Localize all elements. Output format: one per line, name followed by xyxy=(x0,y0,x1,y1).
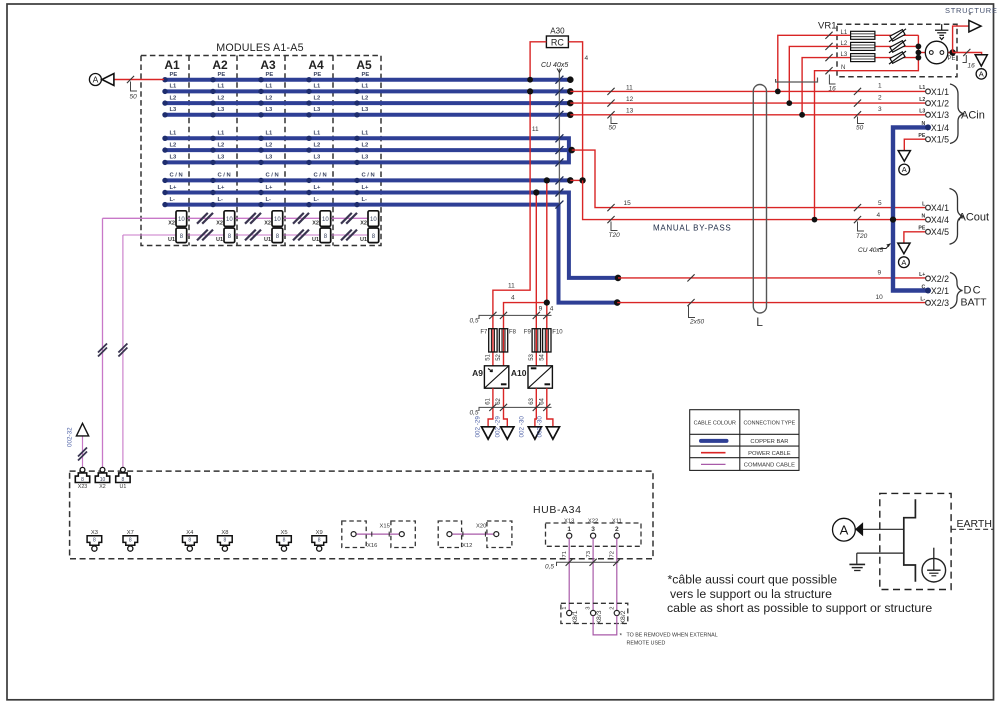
remote connector X8 group xyxy=(561,603,628,623)
svg-text:2: 2 xyxy=(878,95,882,102)
svg-text:X4/4: X4/4 xyxy=(931,215,949,225)
svg-text:A: A xyxy=(93,75,99,85)
svg-text:X20: X20 xyxy=(476,524,486,530)
svg-text:4: 4 xyxy=(550,306,554,313)
terminal X4/5 xyxy=(926,229,931,234)
VR1 monitoring socket xyxy=(925,41,948,64)
svg-text:F9: F9 xyxy=(524,330,532,336)
svg-text:11: 11 xyxy=(626,84,633,91)
wire size 0,5 marks (remote wires) xyxy=(557,559,621,566)
svg-text:002 -29: 002 -29 xyxy=(475,416,482,438)
VR1 fuse xyxy=(851,31,875,39)
power wire 9 from L+ bar down to F9/A10 xyxy=(535,193,537,366)
svg-text:CABLE COLOUR: CABLE COLOUR xyxy=(694,421,736,427)
svg-text:COMMAND CABLE: COMMAND CABLE xyxy=(744,463,795,469)
svg-text:8: 8 xyxy=(283,538,286,544)
terminal X1/1 xyxy=(926,89,931,94)
svg-text:3: 3 xyxy=(586,606,592,609)
copper bar L- with elbow to DC output xyxy=(165,205,618,303)
connector X7 xyxy=(123,530,138,551)
copper bar L3 (top group) xyxy=(165,113,571,117)
terminal X4/4 xyxy=(926,217,931,222)
svg-text:0,5: 0,5 xyxy=(470,409,479,416)
svg-text:N: N xyxy=(922,213,926,219)
svg-text:A9: A9 xyxy=(472,368,483,378)
svg-text:62: 62 xyxy=(496,397,502,404)
svg-text:52: 52 xyxy=(496,353,502,360)
module A5 connector X2 xyxy=(360,211,378,227)
svg-text:5: 5 xyxy=(878,200,882,207)
svg-text:15: 15 xyxy=(624,200,632,207)
X23 wire to off-page arrow 002-32 xyxy=(82,437,84,467)
svg-text:8: 8 xyxy=(129,538,132,544)
svg-text:X16: X16 xyxy=(367,543,377,549)
svg-text:10: 10 xyxy=(322,217,329,223)
power wire 13 to X1 xyxy=(570,114,928,116)
svg-text:F10: F10 xyxy=(552,330,563,336)
svg-text:A: A xyxy=(840,522,849,537)
converter A10 xyxy=(511,366,552,388)
2x50 size marks xyxy=(687,274,695,317)
command cable X2 line xyxy=(103,217,379,219)
module A3 connector U1 xyxy=(264,228,283,243)
X1/5 PE wire to earth arrow xyxy=(904,139,928,150)
power wire 11 from L1 bar down to F7/A9 xyxy=(493,91,530,365)
svg-text:ACin: ACin xyxy=(961,110,985,122)
svg-text:4: 4 xyxy=(511,295,515,302)
wire size 16 mark xyxy=(963,49,971,63)
A30 left wire to PE bar xyxy=(530,42,546,80)
svg-text:T20: T20 xyxy=(609,232,621,239)
svg-text:L2: L2 xyxy=(919,97,925,103)
command cable X2 drop wire xyxy=(102,218,104,467)
connector U1 xyxy=(116,467,130,489)
svg-text:X23: X23 xyxy=(78,484,87,490)
command wire 73 xyxy=(592,538,594,610)
connector X23 xyxy=(75,467,89,489)
svg-text:F8: F8 xyxy=(509,330,517,336)
svg-text:X2/2: X2/2 xyxy=(931,274,949,284)
svg-text:50: 50 xyxy=(856,125,864,132)
PE wire down to earth arrow xyxy=(953,53,982,56)
svg-text:10: 10 xyxy=(178,217,185,223)
svg-text:N: N xyxy=(841,65,845,71)
terminal X8/2 pin 2 xyxy=(609,606,626,624)
bus end dots xyxy=(567,76,621,306)
svg-text:HUB-A34: HUB-A34 xyxy=(533,504,582,516)
module A1 connector X2 xyxy=(168,211,186,227)
connector X5 xyxy=(277,530,292,551)
ACin brace xyxy=(950,84,964,144)
power wire 11 to X1 xyxy=(570,90,928,92)
module A2 connector U1 xyxy=(216,228,235,243)
svg-text:L1: L1 xyxy=(841,30,848,36)
VR1 varistor xyxy=(889,40,906,53)
svg-text:16: 16 xyxy=(968,63,976,70)
svg-text:X8/1: X8/1 xyxy=(572,610,579,624)
connector X8 xyxy=(218,530,233,551)
power wire 12 to X1 xyxy=(570,102,928,104)
svg-text:8: 8 xyxy=(188,538,191,544)
svg-text:PE: PE xyxy=(918,226,925,232)
VR1 fuse xyxy=(851,54,875,62)
svg-text:X1/3: X1/3 xyxy=(931,110,949,120)
svg-text:L-: L- xyxy=(920,297,925,303)
svg-text:MODULES A1-A5: MODULES A1-A5 xyxy=(216,42,304,54)
svg-text:A: A xyxy=(901,258,906,267)
fuse F10 xyxy=(543,329,551,352)
power wire 10 to X2/3 xyxy=(617,302,928,304)
connector X4 xyxy=(183,530,198,551)
svg-text:TO BE REMOVED WHEN EXTERNAL: TO BE REMOVED WHEN EXTERNAL xyxy=(627,633,718,639)
svg-text:X2: X2 xyxy=(360,220,367,226)
svg-text:X22: X22 xyxy=(588,518,598,524)
terminal X8/1 pin 1 xyxy=(562,606,579,624)
A30 right wire (net 4) to C/N bar xyxy=(568,42,582,181)
svg-text:X12: X12 xyxy=(462,543,472,549)
svg-text:U1: U1 xyxy=(312,237,319,243)
svg-text:002-32: 002-32 xyxy=(67,427,74,447)
command wire 72 xyxy=(616,538,618,610)
svg-text:A10: A10 xyxy=(511,368,527,378)
svg-text:16: 16 xyxy=(829,86,837,93)
svg-text:STRUCTURE: STRUCTURE xyxy=(945,6,998,15)
svg-text:72: 72 xyxy=(610,551,616,557)
remote connector group X13/X22/X11 xyxy=(546,523,642,546)
module A1 connector U1 xyxy=(168,228,187,243)
svg-text:1: 1 xyxy=(562,606,568,609)
svg-text:*câble aussi court que possibl: *câble aussi court que possible xyxy=(668,572,838,586)
svg-text:10: 10 xyxy=(274,217,281,223)
svg-text:X8/3: X8/3 xyxy=(596,610,603,624)
svg-text:4: 4 xyxy=(877,212,881,219)
fuse F7 xyxy=(489,329,497,352)
svg-text:X2/1: X2/1 xyxy=(931,286,949,296)
svg-text:X2: X2 xyxy=(264,220,271,226)
connector X9 xyxy=(312,530,327,551)
svg-text:X1/2: X1/2 xyxy=(931,99,949,109)
PE reference arrow A (top-left) xyxy=(114,79,164,81)
svg-text:002 -30: 002 -30 xyxy=(519,416,526,438)
power wire 4 from C/N bar down to F10 and branch to F8 xyxy=(546,180,548,365)
svg-text:4: 4 xyxy=(585,55,589,62)
svg-text:X4/1: X4/1 xyxy=(931,203,949,213)
module A5 connector U1 xyxy=(360,228,379,243)
svg-text:PE: PE xyxy=(918,133,925,139)
svg-text:CU 40x5: CU 40x5 xyxy=(541,62,568,69)
svg-text:BATT: BATT xyxy=(961,297,988,309)
terminal X1/4 xyxy=(925,124,931,130)
terminal X4/1 xyxy=(926,205,931,210)
svg-text:X1/4: X1/4 xyxy=(931,123,949,133)
svg-text:1: 1 xyxy=(567,526,571,533)
copper bar PE (top group) xyxy=(165,78,571,82)
svg-text:3: 3 xyxy=(591,526,595,533)
svg-text:13: 13 xyxy=(626,108,634,115)
svg-text:U1: U1 xyxy=(264,237,271,243)
earth arrow (converter output) xyxy=(528,427,541,439)
terminal X13 pin 1 xyxy=(564,518,574,538)
svg-text:A: A xyxy=(979,70,984,79)
VR1 fuse xyxy=(851,42,875,50)
terminal X2/3 xyxy=(926,300,931,305)
svg-text:50: 50 xyxy=(130,94,138,101)
wire size 50 marks (right of ACin wires) xyxy=(854,88,864,124)
earth arrow (VR1 PE) xyxy=(975,55,987,66)
module A4 connector X2 xyxy=(312,211,330,227)
jumper X15/X16 xyxy=(342,521,416,549)
VR1 chassis ground xyxy=(935,24,948,39)
svg-text:50: 50 xyxy=(609,125,617,132)
svg-text:RC: RC xyxy=(551,37,564,47)
svg-text:2x50: 2x50 xyxy=(689,319,704,326)
VR1 feeder group bracket xyxy=(776,78,818,83)
svg-text:002 -30: 002 -30 xyxy=(537,416,544,438)
svg-text:L2: L2 xyxy=(841,41,848,47)
command cable U1 drop wire xyxy=(122,235,124,467)
svg-text:0,5: 0,5 xyxy=(470,317,479,324)
VR1 varistor xyxy=(889,29,906,42)
EARTH dashed enclosure xyxy=(880,493,951,589)
module A4 connector U1 xyxy=(312,228,331,243)
ACout brace xyxy=(950,189,964,245)
VR1 varistor xyxy=(889,51,906,64)
terminal X2/1 xyxy=(925,288,931,294)
legend power cable xyxy=(701,452,726,454)
svg-text:61: 61 xyxy=(486,397,492,404)
svg-text:X2/3: X2/3 xyxy=(931,298,949,308)
svg-text:X2: X2 xyxy=(312,220,319,226)
svg-text:8: 8 xyxy=(318,538,321,544)
svg-text:L: L xyxy=(756,315,763,329)
svg-text:X11: X11 xyxy=(612,518,622,524)
svg-text:53: 53 xyxy=(529,353,535,360)
svg-text:L3: L3 xyxy=(841,52,848,58)
bus terminal labels in module columns xyxy=(170,72,375,203)
terminal X1/5 xyxy=(926,137,931,142)
svg-text:1: 1 xyxy=(878,83,882,90)
wire size 50 mark (PE arrow) xyxy=(127,76,134,83)
earth measuring point A xyxy=(862,528,904,530)
PE junction dot xyxy=(949,49,955,55)
junction dots (bar taps) xyxy=(527,77,550,306)
svg-text:002 -29: 002 -29 xyxy=(495,416,502,438)
svg-text:10: 10 xyxy=(226,217,233,223)
svg-text:POWER CABLE: POWER CABLE xyxy=(748,451,791,457)
legend copper bar xyxy=(701,439,727,443)
svg-text:L+: L+ xyxy=(919,272,925,278)
earth electrode symbol xyxy=(922,548,946,582)
jumper X20/X12 xyxy=(438,521,512,549)
command wire 71 xyxy=(568,538,570,610)
bus node dots at module columns xyxy=(162,77,359,207)
wire to structure arrow xyxy=(953,26,969,52)
svg-text:C: C xyxy=(922,284,926,290)
svg-text:MANUAL BY-PASS: MANUAL BY-PASS xyxy=(653,224,731,233)
svg-text:U1: U1 xyxy=(216,237,223,243)
earth arrow (converter output) xyxy=(482,427,495,439)
copper bar L1 (top group) xyxy=(165,89,571,93)
svg-text:9: 9 xyxy=(878,270,882,277)
VR1 feeder taps from ACin wires xyxy=(778,35,837,91)
svg-text:COPPER BAR: COPPER BAR xyxy=(750,439,788,445)
VR1 common point dots xyxy=(916,44,922,61)
power wire 15 (manual by-pass L) to X4/1 xyxy=(572,150,928,208)
svg-text:X8/2: X8/2 xyxy=(620,610,627,624)
svg-text:0,5: 0,5 xyxy=(545,564,554,571)
C/N bar to net-4 junction link xyxy=(570,179,582,181)
A30 RC filter xyxy=(546,27,568,48)
svg-text:11: 11 xyxy=(532,126,539,133)
copper bar L+ with elbow to DC output xyxy=(165,193,619,278)
power wire 9 to X2/2 xyxy=(618,277,928,279)
svg-text:71: 71 xyxy=(562,551,568,557)
svg-text:63: 63 xyxy=(529,397,535,404)
remote jumper X8/3 to X8/2 xyxy=(593,616,617,635)
modules A1-A5 dashed enclosure xyxy=(141,56,381,246)
svg-text:cable as short as possible to: cable as short as possible to support or… xyxy=(667,601,932,615)
fuse F8 xyxy=(499,329,507,352)
copper bar L2 (second group) xyxy=(165,148,572,152)
svg-text:ACout: ACout xyxy=(959,212,990,224)
svg-text:X1/5: X1/5 xyxy=(931,135,949,145)
DC BATT brace xyxy=(950,273,963,309)
svg-text:X4/5: X4/5 xyxy=(931,227,949,237)
svg-text:U1: U1 xyxy=(120,484,127,490)
wire size 0,5 marks (fuse inputs) xyxy=(479,312,552,319)
connector X2 xyxy=(95,467,109,489)
terminal X1/3 xyxy=(926,112,931,117)
svg-text:X2: X2 xyxy=(99,484,106,490)
connector X3 xyxy=(87,530,102,551)
svg-text:U1: U1 xyxy=(168,237,175,243)
svg-text:2: 2 xyxy=(609,606,615,609)
terminal X2/2 xyxy=(926,276,931,281)
svg-text:VR1: VR1 xyxy=(818,21,836,32)
T20 size marks (left) xyxy=(607,204,617,231)
svg-text:CONNECTION TYPE: CONNECTION TYPE xyxy=(744,421,796,427)
svg-text:T20: T20 xyxy=(856,233,868,240)
svg-text:X15: X15 xyxy=(380,524,390,530)
svg-text:N: N xyxy=(922,121,926,127)
output wire 64 to earth arrow xyxy=(547,388,553,427)
svg-text:8: 8 xyxy=(224,538,227,544)
svg-text:10: 10 xyxy=(370,217,377,223)
svg-text:X13: X13 xyxy=(564,518,574,524)
output wire 63 to earth arrow xyxy=(535,388,536,427)
svg-text:U1: U1 xyxy=(360,237,367,243)
svg-text:10: 10 xyxy=(876,294,884,301)
terminal X22 pin 3 xyxy=(588,518,598,538)
svg-text:3: 3 xyxy=(878,106,882,113)
svg-text:73: 73 xyxy=(586,551,592,557)
command cable U1 line xyxy=(123,234,378,236)
module A2 connector X2 xyxy=(216,211,234,227)
cable bundle L xyxy=(753,85,766,314)
copper bar L1 to L3 U-link (second group) xyxy=(165,138,569,162)
structure arrow xyxy=(969,20,981,32)
wire size 16 marks at VR1 inputs xyxy=(825,32,835,84)
module A3 connector X2 xyxy=(264,211,282,227)
svg-text:X1/1: X1/1 xyxy=(931,87,949,97)
earth arrow (converter output) xyxy=(501,427,514,439)
EARTH label xyxy=(951,528,993,530)
wire size 50 marks (left of ACin wires) xyxy=(607,88,617,124)
svg-text:DC: DC xyxy=(964,285,982,297)
output wire 61 to earth arrow xyxy=(488,388,493,427)
svg-text:REMOTE USED: REMOTE USED xyxy=(627,641,666,647)
svg-text:10: 10 xyxy=(100,477,106,483)
terminal X11 pin 2 xyxy=(612,518,622,538)
converter A9 xyxy=(472,366,509,388)
svg-text:51: 51 xyxy=(486,353,492,360)
terminal X8/3 pin 3 xyxy=(586,606,603,624)
VR1 internal wiring xyxy=(837,35,953,70)
svg-text:2: 2 xyxy=(615,526,619,533)
svg-text:8: 8 xyxy=(81,477,84,483)
svg-text:8: 8 xyxy=(122,477,125,483)
junction dots on ACin wires xyxy=(775,89,818,223)
legend table xyxy=(690,410,799,471)
copper bar L2 (top group) xyxy=(165,101,571,105)
svg-text:X2: X2 xyxy=(216,220,223,226)
cable break marks on command lines xyxy=(98,213,357,357)
wire size 0,5 marks (converter outputs) xyxy=(479,404,552,411)
X4/5 PE wire to earth arrow xyxy=(904,232,928,243)
svg-text:EARTH: EARTH xyxy=(957,518,992,530)
legend command cable xyxy=(701,463,726,465)
svg-text:54: 54 xyxy=(540,353,546,360)
svg-text:12: 12 xyxy=(626,96,634,103)
svg-text:11: 11 xyxy=(508,283,515,290)
svg-text:L1: L1 xyxy=(919,85,925,91)
structure conductor xyxy=(904,499,916,582)
svg-text:L3: L3 xyxy=(919,109,925,115)
svg-text:PE: PE xyxy=(948,56,956,62)
terminal X1/2 xyxy=(926,101,931,106)
svg-text:vers le support ou la structur: vers le support ou la structure xyxy=(670,587,832,601)
ground symbol xyxy=(849,553,903,570)
svg-text:64: 64 xyxy=(540,397,546,404)
svg-text:X2: X2 xyxy=(168,220,175,226)
svg-text:A: A xyxy=(902,165,907,174)
VR1 dashed enclosure xyxy=(837,24,957,77)
copper bar N riser X1/4 to X2/1 xyxy=(893,127,927,290)
svg-text:8: 8 xyxy=(93,538,96,544)
svg-text:9: 9 xyxy=(539,306,543,313)
T20 size marks (right) xyxy=(854,204,864,231)
output wire 62 to earth arrow xyxy=(504,388,508,427)
HUB-A34 dashed enclosure xyxy=(70,471,653,559)
fuse F9 xyxy=(532,329,540,352)
svg-text:A30: A30 xyxy=(550,27,565,36)
copper bar C/N xyxy=(165,178,571,182)
power wire 4 (N) from C/N to X4/4 xyxy=(583,180,928,219)
svg-text:F7: F7 xyxy=(480,330,488,336)
earth arrow (converter output) xyxy=(546,427,559,439)
